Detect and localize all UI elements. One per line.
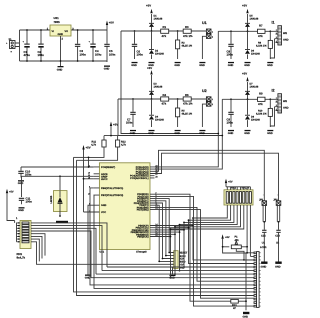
svg-text:47k: 47k [162,102,167,106]
svg-text:+5V: +5V [242,4,247,8]
resistor R1 [161,25,169,38]
svg-text:U1: U1 [202,21,207,25]
measuring point U1 [199,21,213,67]
svg-text:47k 1%: 47k 1% [183,102,193,106]
junction node ADC1 bus [221,135,223,137]
RN1 output wires upper four to LCD rows [31,223,107,278]
svg-text:GND: GND [18,182,24,185]
wire gnd rail bottom [20,60,108,62]
junction node ADC0 bus [217,133,219,135]
svg-text:1N4148: 1N4148 [250,18,259,21]
svg-text:GND: GND [148,132,154,135]
mcu body [99,163,150,254]
svg-text:R1: R1 [163,25,167,29]
connector I1 [272,21,289,46]
svg-text:VI: VI [52,30,55,33]
svg-text:4: 4 [276,108,277,111]
jumper JP1 [259,194,268,269]
svg-text:GND: GND [174,64,180,67]
LCD pin 3 wire from P1 wiper [244,259,254,261]
svg-text:1: 1 [276,29,277,32]
regulator U31 7805 [47,16,75,41]
resistor R3 [183,25,193,38]
svg-text:2: 2 [276,100,277,103]
LCD pin 1/2 wires from RN2 [247,253,254,257]
svg-text:4: 4 [276,40,277,43]
svg-text:7805: 7805 [54,20,61,24]
svg-text:6,19k 1%: 6,19k 1% [256,45,267,48]
svg-text:GND: GND [283,39,289,42]
measuring point U2 [199,89,213,135]
svg-text:1N4148: 1N4148 [251,119,260,122]
capacitor C9 [227,98,235,134]
wire R12 net loop bottom [77,160,255,295]
svg-text:100n: 100n [126,121,133,125]
svg-text:PB7(XTAL2/TOSC2): PB7(XTAL2/TOSC2) [101,194,123,197]
svg-text:1: 1 [263,194,264,197]
pullup R11 and R12 with +5V [91,122,126,148]
svg-text:1N4148: 1N4148 [154,86,163,89]
mcu pin labels right group PB [131,225,149,239]
svg-text:2: 2 [212,35,213,38]
svg-text:+5V: +5V [109,21,114,25]
svg-text:WE: WE [283,32,287,35]
svg-text:1N4148: 1N4148 [155,53,164,56]
mcu pin labels left [101,166,123,214]
svg-text:2: 2 [276,32,277,35]
resistor R4 [161,93,169,106]
svg-text:100n: 100n [26,200,33,204]
+5V feed to RN1 common [6,189,15,223]
svg-text:47k: 47k [162,34,167,38]
wire ch2 signal [118,98,206,100]
resistor R9 [258,92,266,106]
svg-text:GND: GND [131,64,137,67]
svg-text:GND: GND [244,132,250,135]
wire ch1 loop to bus [121,31,218,134]
svg-text:GND: GND [228,132,234,135]
svg-text:GND: GND [130,132,136,135]
svg-text:WE: WE [283,100,287,103]
diode D6 with ground [244,31,260,67]
RN2 bottom stubs into fan [171,205,244,229]
svg-text:100n: 100n [109,52,116,56]
svg-text:47k: 47k [258,34,263,38]
wire +V rail top [20,29,108,31]
ground below U31 [57,36,64,71]
svg-text:LM385: LM385 [50,195,53,203]
diode D7 with +5V [242,72,259,101]
svg-text:100u: 100u [95,52,102,56]
svg-text:1N4148: 1N4148 [154,18,163,21]
resistor R6 [183,93,193,106]
capacitor C6 [131,30,143,67]
svg-text:1: 1 [277,194,278,197]
ISP feed wires from MCU PD2..PD5 [155,199,172,253]
capacitor C1 [23,29,31,62]
resistor R5 vertical to ground [174,98,192,135]
capacitor C8 [227,30,235,66]
svg-text:R9: R9 [259,92,263,96]
wire R11 to reset line [89,147,105,167]
svg-text:PC5(ADC5/SCL): PC5(ADC5/SCL) [130,177,148,180]
mcu pin labels right group PC [130,166,149,180]
mcu pin labels right group PD [134,193,149,211]
ground below C5 [104,66,110,71]
ISP gnd [171,267,172,275]
jumper JP2 [273,194,281,269]
svg-text:PB5(SCK): PB5(SCK) [137,236,148,239]
svg-text:3: 3 [276,104,277,107]
wire input vertical [15,30,20,61]
svg-text:470u: 470u [24,53,31,57]
svg-text:GND: GND [174,132,180,135]
wire PD1 loop to LCD pin16 [155,196,255,306]
svg-text:47k 1%: 47k 1% [183,34,193,38]
RN1 left pin junction dots [18,222,19,242]
svg-text:+5V: +5V [113,123,118,127]
svg-text:VO: VO [65,30,69,33]
resistor R8 vertical [256,30,275,66]
diode D8 with ground [244,99,260,135]
resistor R10 vertical [256,98,275,134]
wire PD6 PD7 to LCD rows [155,207,255,298]
svg-text:GND: GND [244,64,250,67]
svg-text:100n: 100n [38,53,45,57]
svg-text:GND: GND [261,265,267,268]
wire ch2 loop to bus [118,99,222,136]
capacitor C7 [126,98,136,135]
wire MCU GND pin down to ground [85,205,94,279]
voltage reference diode module [50,176,68,223]
LCD gnd bus [245,253,247,310]
capacitor C11 [18,196,32,212]
junction +5V pullup split [110,135,112,137]
svg-text:6,19k 1%: 6,19k 1% [256,113,267,116]
svg-text:8x4,7k: 8x4,7k [17,255,26,259]
mcu right pin stubs [150,167,155,178]
svg-text:1: 1 [212,98,213,101]
wire AREF line to C11 [22,176,94,197]
svg-text:+5V: +5V [228,180,233,183]
svg-text:3: 3 [276,36,277,39]
capacitor C10 [18,167,32,185]
svg-text:R4: R4 [163,93,167,97]
svg-text:+5V: +5V [225,236,230,239]
svg-text:1N4148: 1N4148 [251,53,260,56]
resistor R13 backlight [231,299,247,310]
svg-text:47k: 47k [258,102,263,106]
svg-text:100n: 100n [137,53,144,57]
mcu pin numbers [88,164,158,237]
wire reset line [21,166,94,168]
svg-text:GND: GND [275,265,281,268]
svg-text:2: 2 [212,103,213,106]
wire R11 net loop bottom [74,157,255,292]
svg-text:1N4148: 1N4148 [250,86,259,89]
svg-text:I1: I1 [272,21,275,25]
resistor R2 vertical to ground [174,30,192,67]
svg-text:GND: GND [104,68,110,71]
svg-text:R7: R7 [259,24,263,28]
RN1 left common rail [17,223,21,242]
resistor R7 [258,24,266,38]
svg-text:48,25 1%: 48,25 1% [182,45,193,48]
wire PB7 to LCD row [94,195,254,288]
connector I2 [272,89,289,114]
svg-text:GND: GND [228,64,234,67]
svg-text:R3: R3 [185,25,189,29]
+5V arrow feeding AVCC/VCC [82,145,93,212]
svg-text:100n: 100n [227,121,234,125]
capacitor C3 [75,29,86,62]
svg-text:PD7(AIN1): PD7(AIN1) [137,209,149,212]
svg-text:4,7k: 4,7k [121,144,126,147]
svg-text:48,25 1%: 48,25 1% [182,113,193,116]
svg-text:28: 28 [155,175,157,178]
svg-text:LCD1: LCD1 [260,246,267,249]
svg-text:I2: I2 [272,89,275,93]
mcu left pin stubs [94,167,100,212]
RN2 +5V rail on top [225,179,251,190]
svg-text:PC6(RESET): PC6(RESET) [101,166,115,169]
svg-text:GND: GND [267,132,273,135]
svg-text:100n: 100n [227,53,234,57]
capacitor C5 [104,30,115,62]
svg-text:GND: GND [267,64,273,67]
wire PD0 loop to R13 [155,194,231,301]
svg-text:PB6(XTAL1/TOSC1): PB6(XTAL1/TOSC1) [101,187,123,190]
connector X1 (power input) [6,38,15,54]
wire ch1 right net from MCU PC0 [155,31,278,167]
svg-text:1: 1 [212,30,213,33]
svg-text:ATmega8: ATmega8 [136,251,147,254]
svg-text:+5V: +5V [86,146,91,150]
diode D5 with +5V [242,4,259,33]
svg-text:+5V: +5V [146,4,151,8]
wires MCU PB0..PB5 to fan verticals and LCD [155,218,255,278]
capacitor C2 [38,29,45,62]
wire R11 branch to left vertical [74,156,89,158]
svg-text:U2: U2 [202,89,207,93]
capacitor C4 [89,29,102,62]
svg-text:GND: GND [18,209,24,212]
svg-text:R6: R6 [185,93,189,97]
diode D3 with +5V [147,66,163,100]
svg-text:GND: GND [199,132,205,135]
svg-text:+5V: +5V [9,191,14,194]
svg-text:+5V: +5V [147,66,152,70]
svg-text:C12: C12 [261,235,266,238]
ISP wire junctions [168,252,170,254]
wires LCD data rows continuing right [91,267,255,278]
diode D2 with ground [148,31,164,67]
svg-text:+5V: +5V [242,72,247,76]
svg-text:GND: GND [101,204,107,207]
svg-text:GND: GND [283,107,289,110]
svg-text:VCC: VCC [101,211,106,214]
RN1 output wires lower four to ISP rows [31,234,174,265]
+5V arrow top of rail [106,21,114,31]
wire PB6 to LCD row [90,188,254,285]
svg-text:GND: GND [57,68,63,71]
diode D4 with ground [148,99,164,135]
wire ch1 signal [121,30,206,32]
svg-text:1N4148: 1N4148 [155,119,164,122]
wire ch2 right net from MCU PC1 [155,99,278,169]
svg-text:1: 1 [276,97,277,100]
diode D1 with +5V [107,4,163,32]
svg-text:4,7k: 4,7k [91,144,96,147]
svg-text:AVCC: AVCC [101,178,108,181]
wire R12 down-left to bottom loop [77,147,118,160]
svg-text:GND: GND [58,33,64,36]
svg-text:100n: 100n [80,52,87,56]
svg-text:GND: GND [199,64,205,67]
svg-text:C13: C13 [275,235,280,238]
